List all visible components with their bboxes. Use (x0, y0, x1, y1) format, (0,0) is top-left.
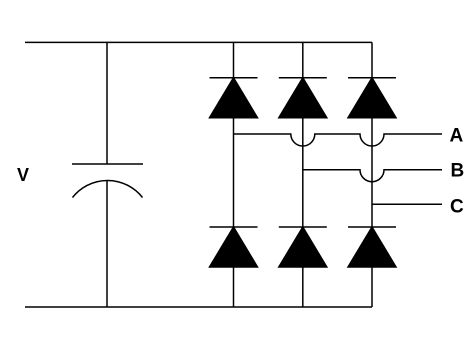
svg-text:C: C (450, 197, 464, 218)
wire from source V down to bottom rail (106, 181, 108, 308)
diode D1 (upper, phase A leg) (210, 78, 258, 118)
wire bottom negative rail (25, 306, 372, 308)
wire diode D4 anode to bottom rail (233, 267, 235, 307)
wire top rail to diode D3 cathode (371, 42, 373, 77)
svg-text:B: B (451, 160, 465, 181)
wire diode D5 anode to bottom rail (302, 267, 304, 307)
wire top rail to diode D1 cathode (233, 42, 235, 77)
voltage source V (flat plate and curved plate) (72, 164, 143, 198)
diode D5 (lower, phase B leg) (279, 227, 327, 267)
diode D2 (upper, phase B leg) (279, 78, 327, 118)
wire phase B line with crossover hop (303, 170, 442, 182)
wire from top rail down to source V (106, 42, 108, 164)
wire diode D6 anode to bottom rail (371, 267, 373, 307)
diode D3 (upper, phase C leg) (348, 78, 396, 118)
wire diode D3 anode down to diode D6 cathode (371, 118, 373, 227)
diode D6 (lower, phase C leg) (348, 227, 396, 267)
wire top positive rail (25, 41, 372, 43)
wire diode D1 anode down to diode D4 cathode (233, 118, 235, 227)
wire phase C line (372, 203, 442, 205)
wire diode D2 anode down to diode D5 cathode (302, 118, 304, 227)
wire top rail to diode D2 cathode (302, 42, 304, 77)
diode D4 (lower, phase A leg) (210, 227, 258, 267)
svg-text:A: A (450, 126, 464, 147)
svg-text:V: V (17, 165, 29, 185)
wire phase A line with crossover hops (234, 134, 443, 146)
